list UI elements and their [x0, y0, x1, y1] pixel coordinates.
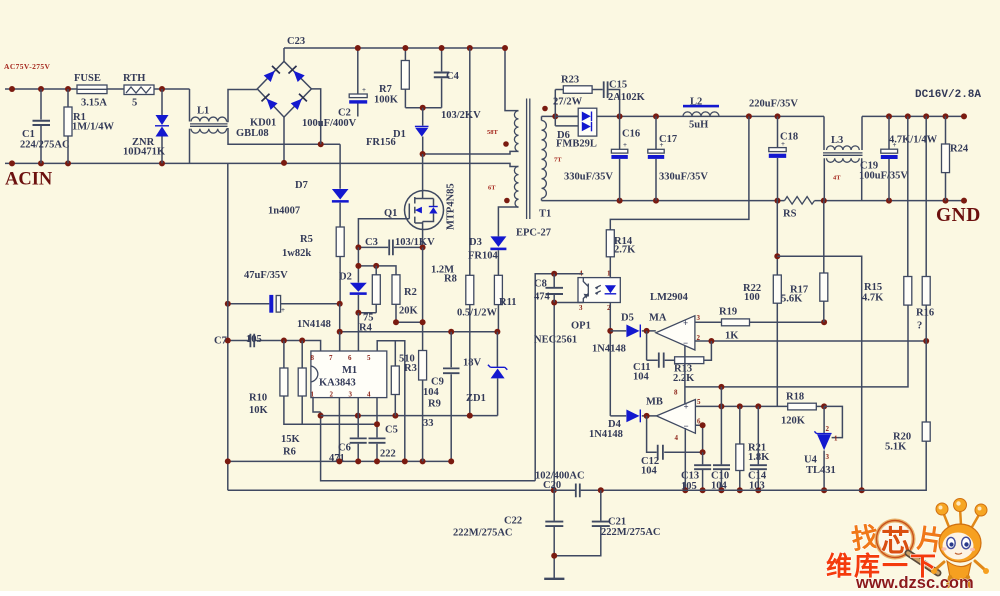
- svg-text:L3: L3: [831, 135, 843, 146]
- svg-text:FR156: FR156: [366, 137, 396, 148]
- svg-text:18V: 18V: [463, 358, 482, 369]
- wire: aux 6T bottom to D3: [498, 207, 518, 236]
- capacitor C1: [40, 89, 42, 163]
- diode D4 1N4148: [610, 415, 656, 417]
- svg-text:58T: 58T: [487, 129, 499, 136]
- wire: L1 bottom to bridge AC2 line: [227, 129, 341, 145]
- resistor R10 10K: [284, 341, 377, 425]
- capacitor C15 2A102K: [604, 81, 608, 98]
- wire: R9 lower lead: [422, 380, 424, 461]
- bridge rectifier KD01 GBL08: [257, 61, 311, 117]
- transformer T1 aux winding 6T: [514, 166, 518, 207]
- capacitor C9 104: [450, 332, 452, 462]
- capacitor C6 471: [350, 438, 367, 442]
- diode D7 1n4007 startup: [339, 144, 341, 227]
- svg-text:NEC2561: NEC2561: [534, 335, 577, 346]
- svg-text:FUSE: FUSE: [74, 73, 101, 84]
- svg-text:1N4148: 1N4148: [592, 344, 626, 355]
- resistor R23 27/2W: [555, 89, 602, 91]
- junction snubber/D1: [420, 105, 426, 111]
- svg-text:C5: C5: [385, 425, 398, 436]
- svg-text:20K: 20K: [399, 306, 419, 317]
- svg-text:3: 3: [697, 314, 701, 322]
- svg-text:C3: C3: [365, 237, 378, 248]
- wire: pin3 column with C6: [357, 398, 359, 462]
- svg-text:100uF/400V: 100uF/400V: [302, 118, 357, 129]
- svg-text:103/2KV: 103/2KV: [441, 110, 481, 121]
- svg-text:7: 7: [329, 354, 333, 362]
- resistor R17 5.6K: [823, 201, 825, 323]
- svg-text:C2: C2: [338, 108, 351, 119]
- svg-text:R15: R15: [864, 282, 882, 293]
- inductor L2 5uH: [683, 112, 719, 117]
- wire: pin4 column with C5: [376, 398, 378, 462]
- capacitor C8 474: [553, 274, 555, 303]
- mosfet Q1 MTP4N85: [405, 191, 444, 230]
- capacitor C4 103/2KV: [441, 48, 443, 108]
- svg-text:C21: C21: [608, 517, 626, 528]
- resistor R20 5.1K: [862, 341, 927, 490]
- svg-text:33: 33: [423, 418, 434, 429]
- resistor R1: [67, 89, 69, 163]
- svg-text:1n4007: 1n4007: [268, 206, 300, 217]
- svg-text:5uH: 5uH: [689, 120, 708, 131]
- svg-text:1K: 1K: [725, 331, 739, 342]
- svg-text:105: 105: [246, 334, 262, 345]
- wire: bridge minus down to ground line: [283, 117, 285, 163]
- svg-text:C1: C1: [22, 129, 35, 140]
- svg-text:C7: C7: [214, 336, 227, 347]
- wire: secondary common rail segment: [554, 489, 862, 491]
- wire: return link to lower rail: [777, 256, 861, 490]
- svg-text:1N4148: 1N4148: [589, 429, 623, 440]
- capacitor C11 104 feedback: [647, 331, 675, 360]
- wire: opamp V- bus: [685, 305, 908, 404]
- svg-text:3: 3: [349, 391, 353, 399]
- capacitor C3 103/1KV: [358, 246, 422, 248]
- resistor R22 100: [776, 201, 778, 407]
- svg-text:4: 4: [367, 391, 371, 399]
- wire: opto collector line to comp: [535, 274, 583, 481]
- svg-text:7T: 7T: [554, 157, 562, 164]
- svg-text:+: +: [362, 86, 366, 94]
- svg-text:MB: MB: [646, 397, 663, 408]
- thermistor RTH 5: [124, 85, 154, 95]
- svg-text:RS: RS: [783, 209, 797, 220]
- svg-text:5: 5: [132, 98, 137, 109]
- svg-text:474: 474: [534, 292, 551, 303]
- svg-text:222: 222: [380, 449, 396, 460]
- resistor R7 100K: [404, 48, 406, 108]
- svg-text:T1: T1: [539, 209, 551, 220]
- svg-text:6: 6: [348, 354, 352, 362]
- svg-text:1N4148: 1N4148: [297, 319, 331, 330]
- wire: MB minus input and C12 feedback: [647, 416, 703, 452]
- svg-text:+: +: [683, 318, 688, 328]
- svg-text:3: 3: [579, 304, 583, 312]
- svg-text:1M/1/4W: 1M/1/4W: [72, 122, 114, 133]
- svg-text:OP1: OP1: [571, 321, 591, 332]
- svg-text:C9: C9: [431, 377, 444, 388]
- wire: AC neutral bottom rail (runs to primary): [5, 163, 519, 166]
- wire: opto emitter line to primary return: [554, 303, 583, 491]
- wire: pin6 output stub: [357, 313, 359, 351]
- capacitor C20 102/400AC Y-cap: [576, 484, 580, 498]
- resistor R11 0.5/1/2W: [494, 275, 502, 304]
- svg-text:ZD1: ZD1: [466, 393, 486, 404]
- capacitor C10 104: [720, 387, 722, 490]
- capacitor C17 330uF/35V: [655, 116, 657, 200]
- svg-text:222M/275AC: 222M/275AC: [601, 527, 661, 538]
- svg-text:DC16V/2.8A: DC16V/2.8A: [915, 89, 981, 101]
- opamp MA LM2904: [656, 316, 695, 350]
- resistor R14 2.7K: [606, 230, 614, 257]
- svg-text:100: 100: [744, 292, 760, 303]
- wire: snubber bottom row: [405, 107, 441, 109]
- svg-text:LM2904: LM2904: [650, 292, 689, 303]
- svg-text:GBL08: GBL08: [236, 128, 269, 139]
- svg-text:C15: C15: [609, 80, 627, 91]
- svg-text:FMB29L: FMB29L: [556, 139, 597, 150]
- svg-text:KD01: KD01: [250, 118, 276, 129]
- svg-text:10K: 10K: [249, 405, 269, 416]
- svg-text:D7: D7: [295, 180, 308, 191]
- svg-text:120K: 120K: [781, 416, 806, 427]
- svg-text:AC75V-275V: AC75V-275V: [4, 62, 51, 71]
- wire: gate divider top jog: [358, 266, 396, 275]
- capacitor C22 222M/275AC: [553, 490, 555, 556]
- diode D2 1N4148 gate: [357, 247, 359, 312]
- svg-text:L2: L2: [690, 97, 702, 108]
- svg-text:330uF/35V: 330uF/35V: [659, 172, 708, 183]
- resistor R9 33: [419, 351, 427, 381]
- wire: L1 top to bridge AC1: [227, 90, 258, 122]
- watermark dzsc logo group: [850, 499, 989, 587]
- capacitor C14 103: [757, 406, 759, 490]
- diode D5 1N4148: [610, 330, 656, 332]
- capacitor C19 100uF/35V: [888, 116, 890, 200]
- resistor R2 20K: [396, 304, 423, 322]
- wire: drain node to primary winding: [423, 151, 519, 154]
- capacitor C21 222M/275AC: [554, 490, 601, 556]
- svg-text:R16: R16: [916, 308, 934, 319]
- svg-text:R3: R3: [404, 363, 417, 374]
- resistor R8 1.2M: [469, 48, 471, 416]
- svg-text:+: +: [281, 306, 285, 314]
- svg-text:1w82k: 1w82k: [282, 248, 311, 259]
- svg-text:103/1KV: 103/1KV: [395, 237, 435, 248]
- wire: secondary return rail: [542, 200, 965, 202]
- resistor R24: [945, 116, 947, 200]
- svg-text:C17: C17: [659, 134, 677, 145]
- resistor RS sense: [785, 197, 815, 205]
- svg-text:3: 3: [826, 453, 830, 461]
- svg-text:C16: C16: [622, 129, 640, 140]
- shunt U4 TL431: [823, 406, 825, 490]
- ic M1 KA3843: [311, 351, 387, 398]
- svg-text:8: 8: [311, 354, 315, 362]
- svg-text:104: 104: [423, 387, 440, 398]
- capacitor C18: [777, 116, 779, 200]
- capacitor 47uF/35V electrolytic: [228, 303, 340, 305]
- inductor L3 coupled: [824, 116, 862, 150]
- resistor R6 15K: [301, 341, 303, 425]
- resistor R15 4.7K: [907, 116, 909, 276]
- svg-text:6T: 6T: [488, 185, 496, 192]
- svg-text:C23: C23: [287, 36, 305, 47]
- svg-text:www.dzsc.com: www.dzsc.com: [855, 574, 974, 591]
- svg-text:100K: 100K: [374, 95, 399, 106]
- svg-text:5.1K: 5.1K: [885, 442, 907, 453]
- svg-text:1: 1: [607, 270, 611, 278]
- svg-text:R18: R18: [786, 392, 804, 403]
- svg-text:4.7K: 4.7K: [862, 293, 884, 304]
- capacitor C7 105: [228, 341, 321, 352]
- wire: primary return bottom loop: [228, 489, 554, 491]
- zener ZD1 18V: [496, 332, 498, 416]
- optocoupler OP1 NEC2561: [578, 278, 620, 303]
- svg-text:MTP4N85: MTP4N85: [446, 183, 457, 230]
- wire: VCC line to pin7: [340, 304, 498, 351]
- capacitor C5 222: [369, 438, 386, 442]
- transformer secondary 7T: [542, 121, 547, 199]
- svg-text:KA3843: KA3843: [319, 378, 356, 389]
- svg-text:R8: R8: [444, 274, 457, 285]
- svg-text:4.7K/1/4W: 4.7K/1/4W: [889, 135, 938, 146]
- svg-text:ACIN: ACIN: [5, 170, 53, 190]
- wire: bridge plus up to HV rail: [284, 48, 519, 111]
- svg-text:4: 4: [675, 434, 679, 442]
- svg-text:1: 1: [834, 435, 838, 443]
- svg-text:224/275AC: 224/275AC: [20, 140, 70, 151]
- wire: comp/feedback line: [321, 415, 498, 417]
- wire: pin5 ground jog: [377, 341, 405, 462]
- resistor R13 2.2K: [675, 357, 704, 364]
- svg-text:C22: C22: [504, 516, 522, 527]
- svg-text:R19: R19: [719, 307, 737, 318]
- wire: gate drive line: [358, 219, 405, 248]
- svg-text:EPC-27: EPC-27: [516, 228, 551, 239]
- svg-text:GND: GND: [936, 205, 981, 226]
- svg-text:15K: 15K: [281, 434, 301, 445]
- resistor R19 1K: [722, 319, 750, 326]
- svg-text:47uF/35V: 47uF/35V: [244, 270, 288, 281]
- varistor ZNR 10D471K: [161, 89, 163, 163]
- wire: MA minus input line to R16: [695, 340, 926, 342]
- svg-text:220uF/35V: 220uF/35V: [749, 99, 798, 110]
- svg-text:+: +: [623, 141, 627, 149]
- svg-text:R11: R11: [499, 297, 517, 308]
- svg-text:M1: M1: [342, 365, 357, 376]
- svg-text:2: 2: [826, 425, 830, 433]
- resistor R21 1.8K: [739, 406, 741, 490]
- svg-text:1: 1: [311, 391, 315, 399]
- svg-text:FR104: FR104: [468, 251, 498, 262]
- wire: MB pin4 to rail: [684, 428, 686, 490]
- svg-text:104: 104: [633, 372, 650, 383]
- svg-text:330uF/35V: 330uF/35V: [564, 172, 613, 183]
- svg-text:1.8K: 1.8K: [748, 452, 770, 463]
- wire: pin1 comp column: [313, 398, 535, 481]
- wire: AC live top rail: [5, 88, 190, 90]
- capacitor C13 105: [702, 452, 704, 490]
- wire: led cathode column to D5/D4: [609, 303, 611, 416]
- svg-text:+: +: [684, 402, 689, 412]
- svg-text:5: 5: [367, 354, 371, 362]
- svg-text:RTH: RTH: [123, 73, 145, 84]
- svg-text:C13: C13: [681, 471, 699, 482]
- svg-text:Q1: Q1: [384, 208, 397, 219]
- svg-text:R5: R5: [300, 234, 313, 245]
- wire: pin2 column: [338, 398, 340, 462]
- rectifier D6 FMB29L: [578, 108, 597, 136]
- svg-text:R7: R7: [379, 84, 392, 95]
- svg-text:100uF/35V: 100uF/35V: [859, 171, 908, 182]
- diode D3 FR104: [490, 236, 506, 247]
- svg-text:C18: C18: [780, 132, 798, 143]
- wire: opto led anode stub: [609, 277, 611, 279]
- wire: pin7 vcc stub: [339, 332, 341, 351]
- svg-text:104: 104: [641, 466, 658, 477]
- wire: left primary ground bus: [227, 163, 229, 490]
- svg-text:D2: D2: [339, 272, 352, 283]
- svg-text:222M/275AC: 222M/275AC: [453, 528, 513, 539]
- svg-text:3.15A: 3.15A: [81, 98, 107, 109]
- svg-text:−: −: [684, 421, 689, 431]
- svg-text:U4: U4: [804, 455, 818, 466]
- capacitor C2 100uF/400V electrolytic: [357, 48, 359, 117]
- resistor R18 120K: [788, 403, 817, 410]
- svg-text:0.5/1/2W: 0.5/1/2W: [457, 308, 497, 319]
- svg-text:TL431: TL431: [806, 465, 836, 476]
- svg-text:5.6K: 5.6K: [781, 294, 803, 305]
- transformer T1 EPC-27 primary 58T: [514, 111, 518, 152]
- watermark mascot: [943, 508, 980, 527]
- opamp MB: [656, 400, 695, 434]
- svg-text:C20: C20: [543, 480, 561, 491]
- svg-text:R23: R23: [561, 75, 579, 86]
- svg-text:5: 5: [697, 398, 701, 406]
- wire: bridge AC2 down: [311, 89, 320, 144]
- svg-text:C4: C4: [446, 71, 460, 82]
- junction dots on HV rail: [355, 45, 361, 51]
- capacitor C16 330uF/35V: [619, 116, 621, 200]
- svg-text:R10: R10: [249, 393, 267, 404]
- svg-text:10D471K: 10D471K: [123, 147, 166, 158]
- diode D1 FR156 clamp: [422, 108, 424, 154]
- wire: MA plus input to R19: [695, 321, 722, 323]
- wire: MB plus input line: [695, 405, 787, 407]
- svg-text:27/2W: 27/2W: [553, 97, 583, 108]
- wire: +16V output rail: [542, 115, 965, 117]
- svg-text:L1: L1: [197, 106, 209, 117]
- svg-text:2: 2: [330, 391, 334, 399]
- junction dots AC rails: [9, 86, 165, 166]
- svg-text:2A102K: 2A102K: [608, 92, 646, 103]
- fuse FUSE 3.15A: [77, 85, 107, 94]
- wire: Q1 source column down: [422, 247, 424, 351]
- svg-text:2.7K: 2.7K: [614, 245, 636, 256]
- junction node right-vertex line: [318, 141, 324, 147]
- svg-text:8: 8: [674, 389, 678, 397]
- wire: IC ground bottom rail: [228, 460, 451, 462]
- resistor R16: [925, 116, 927, 341]
- transformer core: [527, 99, 530, 220]
- svg-text:R9: R9: [428, 399, 441, 410]
- svg-text:C8: C8: [534, 279, 547, 290]
- svg-text:2.2K: 2.2K: [673, 373, 695, 384]
- svg-text:D3: D3: [469, 237, 482, 248]
- svg-text:C6: C6: [338, 443, 351, 454]
- svg-text:R6: R6: [283, 447, 296, 458]
- svg-text:MA: MA: [649, 313, 667, 324]
- svg-text:R24: R24: [950, 144, 969, 155]
- chassis ground: [553, 556, 555, 579]
- svg-text:4T: 4T: [833, 175, 841, 182]
- resistor R4 75: [358, 266, 376, 313]
- wire: R14 feed jog from +16V: [610, 116, 749, 229]
- resistor R5 1w82k: [336, 227, 344, 257]
- svg-text:D5: D5: [621, 313, 634, 324]
- resistor R3 510: [394, 341, 396, 416]
- svg-text:?: ?: [917, 321, 922, 332]
- svg-text:R2: R2: [404, 287, 417, 298]
